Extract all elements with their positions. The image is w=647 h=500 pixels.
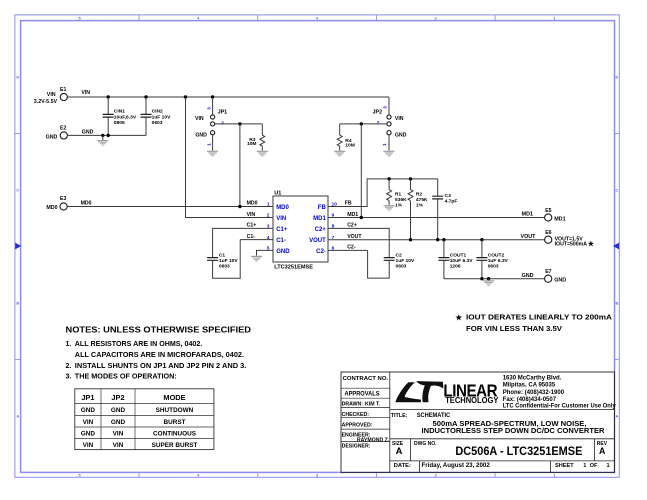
svg-text:COUT1: COUT1 [450,253,467,259]
svg-text:★: ★ [455,313,463,322]
wire COUT2 leads [481,240,483,279]
svg-text:MD0: MD0 [81,201,92,207]
terminal E2 GND [46,126,68,141]
svg-text:VIN: VIN [83,419,94,426]
junction GND rail / ground stub [487,277,490,280]
svg-text:★: ★ [588,240,595,248]
wire VIN rail from E1 to JP2 [67,96,389,98]
svg-text:JP2: JP2 [373,110,383,116]
junction FB / R1 [387,177,390,180]
svg-text:1: 1 [382,143,387,146]
svg-text:VIN: VIN [47,92,56,98]
svg-text:A: A [396,445,403,456]
svg-text:TITLE:: TITLE: [391,413,408,419]
junction MD0 / JP1 drop [238,205,241,208]
svg-text:ALL RESISTORS ARE IN OHMS, 040: ALL RESISTORS ARE IN OHMS, 0402. [75,341,203,348]
svg-text:VIN: VIN [113,430,124,437]
capacitor CIN1 [103,114,114,117]
svg-text:OF: OF [590,463,598,469]
svg-text:MD1: MD1 [313,216,326,222]
junction FB / R2 [409,177,412,180]
svg-text:4.7pF: 4.7pF [445,198,458,204]
resistor R1 [387,190,392,201]
svg-text:C3: C3 [445,193,452,199]
svg-text:475K: 475K [416,197,428,203]
svg-text:KIM T.: KIM T. [365,401,381,407]
svg-text:2: 2 [221,120,224,125]
svg-text:3: 3 [267,224,270,229]
U1 pin 1 MD0 [267,202,290,211]
svg-text:MD0: MD0 [276,205,289,211]
svg-text:1uF 10V: 1uF 10V [396,258,415,264]
svg-text:SCHEMATIC: SCHEMATIC [417,412,451,419]
U1 pin 5 GND [267,246,290,255]
svg-text:DESIGNER:: DESIGNER: [342,444,371,450]
svg-text:536K: 536K [395,197,407,203]
wire MD1 to E5 [328,217,545,219]
svg-text:DATE:: DATE: [394,463,411,469]
svg-text:E2: E2 [60,126,66,132]
svg-text:E7: E7 [545,269,551,275]
svg-text:C1-: C1- [247,234,256,240]
svg-text:CIN2: CIN2 [152,108,163,114]
svg-text:D: D [616,75,619,79]
svg-text:1630 McCarthy Blvd.: 1630 McCarthy Blvd. [503,376,562,382]
svg-text:C: C [616,188,619,192]
svg-text:DC506A - LTC3251EMSE: DC506A - LTC3251EMSE [455,445,582,458]
svg-text:COUT2: COUT2 [488,253,505,259]
svg-text:1: 1 [206,143,211,146]
svg-text:A: A [599,446,606,456]
svg-text:D: D [16,75,19,79]
svg-text:VIN: VIN [83,442,94,449]
svg-text:A: A [16,414,19,418]
svg-text:GND: GND [82,129,94,135]
svg-text:ALL CAPACITORS ARE IN MICROFAR: ALL CAPACITORS ARE IN MICROFARADS, 0402. [75,352,244,359]
svg-text:E1: E1 [60,87,66,93]
svg-text:0603: 0603 [488,263,499,269]
svg-text:R1: R1 [395,192,402,198]
U1 pin 4 C1- [267,235,286,244]
capacitor C1 [207,258,218,261]
svg-text:LTC3251EMSE: LTC3251EMSE [274,264,313,270]
ground at R3 [257,151,268,156]
ground at R1 [384,206,395,211]
svg-text:THE MODES OF OPERATION:: THE MODES OF OPERATION: [75,374,177,381]
svg-text:3: 3 [316,16,318,20]
svg-text:INDUCTORLESS STEP DOWN DC/DC C: INDUCTORLESS STEP DOWN DC/DC CONVERTER [422,426,606,435]
wire JP1 pin3 riser [212,97,214,115]
mode table [75,389,214,450]
note 1 [66,341,203,348]
svg-text:Phone: (408)432-1900: Phone: (408)432-1900 [503,390,565,396]
svg-text:Milpitas, CA 95035: Milpitas, CA 95035 [503,383,556,389]
svg-text:5: 5 [267,246,270,251]
junction VOUT / COUT2 [480,238,483,241]
wire R2 leads to VOUT [410,179,412,240]
wire JP2 pin3 riser [388,97,390,115]
svg-text:C1+: C1+ [247,223,257,229]
svg-text:1%: 1% [395,202,403,208]
label C2 value [396,253,415,270]
svg-text:10uF,6.3V: 10uF,6.3V [114,114,137,120]
wire C3 leads [437,179,439,240]
wire C2 bottom to C2- [368,250,390,278]
wire CIN1 leads [107,97,109,135]
wire C2- to U1 pin 6 [328,249,368,251]
svg-text:GND: GND [46,135,58,141]
wire CIN2 leads [145,97,147,135]
wire GND rail to E7 [444,278,545,280]
U1 pin 2 VIN [267,213,286,222]
svg-text:0805: 0805 [114,120,125,126]
svg-text:10uF 6.3V: 10uF 6.3V [450,258,474,264]
junction GND rail / CIN1 [107,134,110,137]
title block [341,372,616,472]
svg-text:FOR VIN LESS THAN 3.5V: FOR VIN LESS THAN 3.5V [466,326,562,333]
jumper JP1 [195,110,227,139]
svg-text:VIN: VIN [113,442,124,449]
terminal E1 VIN [34,87,68,105]
svg-text:VOUT: VOUT [309,238,326,244]
svg-text:C2+: C2+ [315,227,327,233]
junction VOUT / C3 [436,238,439,241]
U1 pin 6 C2- [316,246,334,255]
svg-text:1uF 10V: 1uF 10V [152,114,171,120]
svg-text:NOTES: UNLESS OTHERWISE SPECIF: NOTES: UNLESS OTHERWISE SPECIFIED [66,325,252,335]
U1 pin 10 FB [318,202,337,211]
svg-text:2.: 2. [66,363,72,370]
svg-text:FB: FB [345,201,352,207]
svg-text:IOUT=500mA: IOUT=500mA [555,242,588,248]
wire VIN to U1 pin 2 [186,97,274,218]
svg-text:5: 5 [79,474,81,478]
junction GND rail / ground stub [101,134,104,137]
svg-text:C1-: C1- [276,238,286,244]
note 2 [66,363,247,370]
svg-text:3: 3 [207,107,212,110]
svg-text:E3: E3 [60,196,66,202]
svg-text:RAYMOND Z.: RAYMOND Z. [357,437,390,443]
svg-text:TECHNOLOGY: TECHNOLOGY [445,396,499,405]
svg-text:MD0: MD0 [46,205,57,211]
svg-text:SUPER BURST: SUPER BURST [152,442,198,449]
capacitor C2 [384,258,395,261]
wire U1 GND pin 5 [257,250,274,255]
svg-text:0603: 0603 [219,263,230,269]
svg-text:3.2V-5.5V: 3.2V-5.5V [34,99,58,105]
svg-text:C2+: C2+ [347,223,357,229]
svg-text:GND: GND [111,407,126,414]
resistor R2 [408,190,413,201]
svg-text:LTC Confidential-For Customer: LTC Confidential-For Customer Use Only [503,404,617,410]
wire GND rail from E2 [67,134,146,136]
wire R4 leads [339,124,341,151]
wire JP1 pin2 to R3 [215,123,263,125]
wire COUT1 leads [443,240,445,279]
svg-text:C2-: C2- [316,249,326,255]
svg-text:1.: 1. [66,341,72,348]
terminal E7 GND [545,269,567,283]
junction VIN rail / JP1 [211,95,214,98]
U1 pin 8 C2+ [315,224,335,233]
svg-text:VIN: VIN [81,90,90,96]
wire R3 leads [261,124,263,151]
svg-text:9: 9 [332,213,335,218]
junction VIN rail / CIN2 [144,95,147,98]
svg-text:GND: GND [81,407,96,414]
wire C1- to U1 pin 4 [240,239,273,241]
label R3 value [247,137,257,147]
svg-text:U1: U1 [274,190,281,196]
junction GND rail / COUT2 [480,277,483,280]
svg-text:JP1: JP1 [218,110,228,116]
svg-text:Friday, August 23, 2002: Friday, August 23, 2002 [422,462,491,469]
capacitor C3 [432,196,443,199]
svg-text:2: 2 [435,16,437,20]
capacitor COUT2 [476,258,487,261]
svg-text:VIN: VIN [195,116,204,122]
svg-text:5: 5 [79,16,81,20]
svg-text:APPROVED:: APPROVED: [342,422,373,428]
terminal E3 MD0 [46,196,67,211]
U1 pin 7 VOUT [309,235,334,244]
junction JP1 pin2 / MD0 drop [238,122,241,125]
capacitor COUT1 [438,258,449,261]
junction JP2 pin2 / MD1 drop [360,122,363,125]
svg-text:IOUT DERATES LINEARLY TO 200mA: IOUT DERATES LINEARLY TO 200mA [466,315,612,322]
svg-text:CONTRACT NO.: CONTRACT NO. [343,376,389,382]
junction VOUT / R2 [409,238,412,241]
svg-text:10M: 10M [345,142,355,148]
junction VIN rail / U1 VIN feed [184,95,187,98]
svg-text:MD1: MD1 [522,211,533,217]
junction VOUT / COUT1 [442,238,445,241]
svg-text:4: 4 [267,235,270,240]
svg-text:1uF 10V: 1uF 10V [219,258,238,264]
wire C1 bottom to C1- [213,240,241,279]
label R2 value [416,192,428,209]
wire JP1 pin2 to MD0 [239,124,241,207]
label COUT2 value [488,253,509,270]
label C1 value [219,253,238,270]
terminal E5 MD1 [545,208,566,223]
svg-text:8: 8 [332,224,335,229]
label R1 value [395,192,407,209]
svg-text:1: 1 [267,202,270,207]
svg-text:DRAWN:: DRAWN: [342,401,364,407]
svg-text:CONTINUOUS: CONTINUOUS [153,430,197,437]
Linear Technology logo [395,380,499,405]
svg-text:10M: 10M [247,141,257,147]
note IOUT derating [455,313,612,333]
svg-text:BURST: BURST [163,419,185,426]
capacitor CIN2 [141,114,152,117]
wire JP2 pin1 to ground [388,135,390,151]
ground at U1 pin 5 [251,256,262,261]
svg-text:VIN: VIN [247,212,256,218]
resistor R4 [337,135,342,146]
svg-text:0603: 0603 [152,120,163,126]
svg-text:APPROVALS: APPROVALS [345,391,380,398]
svg-text:1%: 1% [416,202,424,208]
wire JP1 pin1 to ground [212,135,214,151]
svg-text:VOUT: VOUT [347,234,362,240]
svg-text:MD0: MD0 [247,201,258,207]
svg-text:10: 10 [332,202,338,207]
ground at JP1 pin1 [207,151,218,156]
svg-text:C: C [16,188,19,192]
svg-text:3: 3 [316,474,318,478]
svg-text:3: 3 [382,106,387,109]
svg-text:Fax: (408)434-0507: Fax: (408)434-0507 [503,397,557,403]
ground at JP2 pin1 [384,151,395,156]
junction MD1 / JP2 drop [360,216,363,219]
svg-text:E6: E6 [545,230,551,236]
wire U1 C1+ to C1 [213,228,273,257]
svg-text:GND: GND [395,133,407,139]
svg-text:VOUT: VOUT [521,234,537,240]
svg-text:SHUTDOWN: SHUTDOWN [156,407,194,414]
svg-text:JP2: JP2 [111,393,124,402]
svg-text:CIN1: CIN1 [114,108,125,114]
wire FB to divider top [328,179,438,207]
label CIN1 value [114,108,137,125]
svg-text:1uF 6.3V: 1uF 6.3V [488,258,509,264]
svg-text:SHEET: SHEET [555,463,574,469]
label CIN2 value [152,108,171,125]
svg-text:GND: GND [81,430,96,437]
svg-text:MD1: MD1 [347,212,358,218]
svg-text:1: 1 [583,463,586,469]
svg-text:7: 7 [332,235,335,240]
svg-text:VIN: VIN [276,216,286,222]
svg-text:E5: E5 [545,208,551,214]
svg-text:FB: FB [318,205,327,211]
svg-text:2: 2 [267,213,270,218]
svg-text:CHECKED:: CHECKED: [342,412,370,418]
svg-text:GND: GND [111,419,126,426]
svg-text:2: 2 [435,474,437,478]
wire ground stub [102,135,104,140]
svg-text:VIN: VIN [395,116,404,122]
wire JP2 pin2 to R4 [340,123,387,125]
wire R1 leads [388,179,390,205]
svg-text:GND: GND [522,273,534,279]
label C3 value [445,193,458,204]
wire VOUT to E6 [328,239,545,241]
junction VIN rail / CIN1 [107,95,110,98]
wire output ground stub [488,279,490,281]
svg-text:1: 1 [553,16,555,20]
svg-text:GND: GND [554,278,566,284]
svg-text:JP1: JP1 [81,393,94,402]
svg-text:1206: 1206 [450,263,461,269]
svg-text:R2: R2 [416,192,423,198]
svg-text:6: 6 [332,246,335,251]
svg-text:GND: GND [276,249,290,255]
svg-text:MODE: MODE [163,393,185,402]
svg-text:A: A [616,414,619,418]
svg-text:DWG NO.: DWG NO. [414,441,437,447]
label R4 value [345,138,355,148]
note 3 [66,374,177,381]
svg-text:1: 1 [553,474,555,478]
resistor R3 [260,135,265,146]
svg-text:C1+: C1+ [276,227,288,233]
wire JP2 pin2 to MD1 [360,124,362,218]
ground at input rail [97,141,108,146]
svg-text:C2: C2 [396,253,403,259]
svg-text:C1: C1 [219,253,226,259]
svg-text:GND: GND [195,133,207,139]
ground at output caps [483,281,494,286]
svg-text:INSTALL SHUNTS ON JP1 AND JP2: INSTALL SHUNTS ON JP1 AND JP2 PIN 2 AND … [75,363,247,370]
U1 pin 3 C1+ [267,224,288,233]
U1 pin 9 MD1 [313,213,334,222]
svg-text:B: B [16,301,19,305]
svg-text:1: 1 [606,463,609,469]
ground at R4 [334,151,345,156]
svg-text:3.: 3. [66,374,72,381]
label COUT1 value [450,253,474,270]
wire MD0 from E3 to U1 pin1 [67,206,273,208]
svg-text:B: B [616,301,619,305]
svg-text:0603: 0603 [396,263,407,269]
jumper JP2 [373,110,407,139]
IC U1 LTC3251EMSE [273,190,328,270]
wire U1 C2+ to C2 [328,228,389,257]
svg-text:C2-: C2- [347,245,356,251]
svg-text:MD1: MD1 [554,217,565,223]
terminal E6 VOUT [545,230,595,248]
